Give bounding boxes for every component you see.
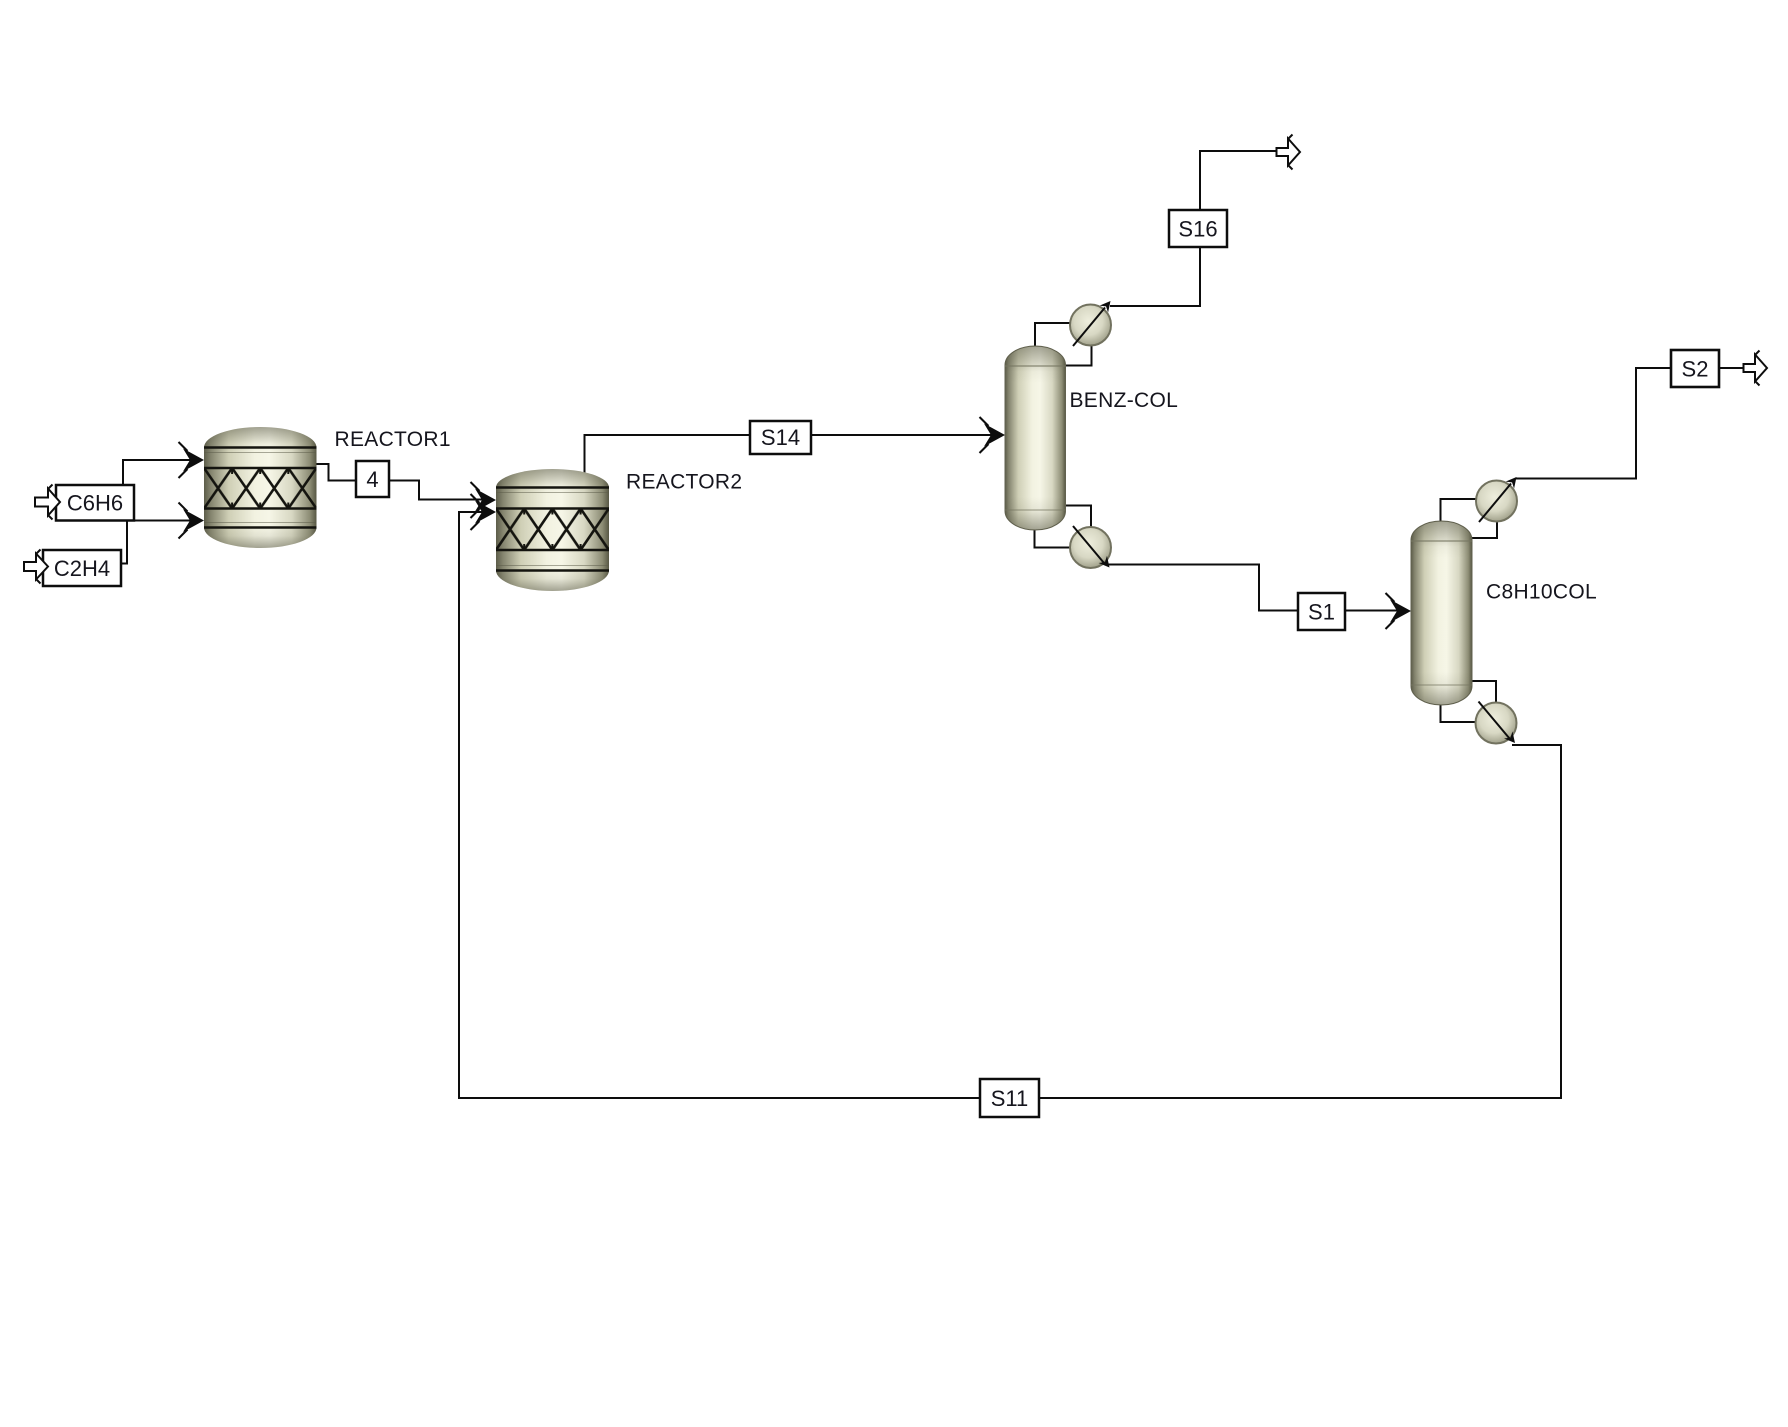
arrowhead into BENZ-COL feed (S14): [980, 417, 1006, 453]
reactor REACTOR2 vessel: [496, 469, 609, 591]
exit arrow S16: [1277, 135, 1301, 170]
wire S16: condenser1 outlet to flowsheet exit: [1110, 151, 1277, 306]
reactor REACTOR1 vessel: [204, 427, 317, 548]
svg-text:C8H10COL: C8H10COL: [1486, 581, 1597, 604]
reboiler of C8H10COL: [1476, 702, 1520, 747]
svg-text:4: 4: [366, 467, 378, 492]
wire C2H4 to REACTOR1 bottom inlet: [120, 521, 200, 564]
wire C8H10COL side to reboiler2 top: [1472, 681, 1496, 702]
wire S2 box to flowsheet exit: [1718, 367, 1745, 369]
arrowhead into REACTOR1 top inlet: [179, 442, 205, 478]
svg-text:BENZ-COL: BENZ-COL: [1070, 389, 1179, 412]
column BENZ-COL: [1005, 346, 1066, 530]
wire S2: condenser2 outlet to S2 box: [1515, 368, 1672, 479]
svg-text:S1: S1: [1308, 600, 1335, 625]
wire S11 recycle: reboiler2 outlet down, across bottom, up to REACTOR2 inlet: [459, 512, 1561, 1098]
svg-text:C2H4: C2H4: [54, 556, 110, 581]
stream box C2H4: [43, 550, 121, 586]
svg-text:S16: S16: [1178, 217, 1217, 242]
arrowhead into REACTOR2 inlet (stream 4): [471, 482, 497, 518]
condenser of C8H10COL: [1476, 474, 1521, 522]
svg-text:C6H6: C6H6: [67, 491, 123, 516]
stream box S16: [1169, 210, 1227, 247]
svg-text:S2: S2: [1682, 357, 1709, 382]
stream box S14: [750, 421, 811, 454]
reboiler of BENZ-COL: [1070, 526, 1114, 571]
svg-text:S11: S11: [991, 1086, 1029, 1111]
wire C8H10COL top vapor to condenser2: [1441, 499, 1477, 522]
stream box S11: [980, 1079, 1039, 1117]
wire C8H10COL bottoms to reboiler2: [1441, 704, 1476, 722]
wire C6H6 to REACTOR1 top inlet: [123, 460, 200, 486]
wire stream 4: box 4 to REACTOR2 inlet: [388, 481, 492, 500]
wire condenser2 reflux return: [1472, 522, 1497, 538]
stream box 4: [356, 461, 389, 497]
wire BENZ-COL side to reboiler1 top: [1065, 506, 1091, 528]
wire condenser1 reflux return: [1065, 346, 1092, 366]
stream box S2: [1671, 350, 1719, 387]
stream box S1: [1298, 593, 1345, 630]
condenser of BENZ-COL: [1070, 298, 1115, 346]
wire stream 4: REACTOR1 outlet to box 4: [317, 464, 358, 481]
wire S1: reboiler1 outlet to C8H10COL feed: [1107, 565, 1406, 611]
arrowhead into C8H10COL feed (S1): [1386, 593, 1412, 629]
exit arrow S2: [1744, 351, 1768, 386]
wire BENZ-COL bottoms to reboiler1: [1035, 529, 1071, 548]
wire BENZ-COL top vapor to condenser1: [1035, 323, 1070, 347]
arrowhead into REACTOR2 inlet (recycle S11): [471, 494, 497, 530]
feed arrow C6H6: [35, 485, 60, 520]
svg-text:S14: S14: [761, 425, 800, 450]
svg-text:REACTOR1: REACTOR1: [335, 428, 451, 451]
stream box C6H6: [56, 485, 134, 521]
arrowhead into REACTOR1 bottom inlet: [179, 503, 205, 539]
svg-text:REACTOR2: REACTOR2: [626, 471, 742, 494]
wire S14: REACTOR2 top to BENZ-COL feed: [585, 435, 1001, 476]
column C8H10COL: [1411, 521, 1472, 705]
feed arrow C2H4: [24, 550, 48, 584]
